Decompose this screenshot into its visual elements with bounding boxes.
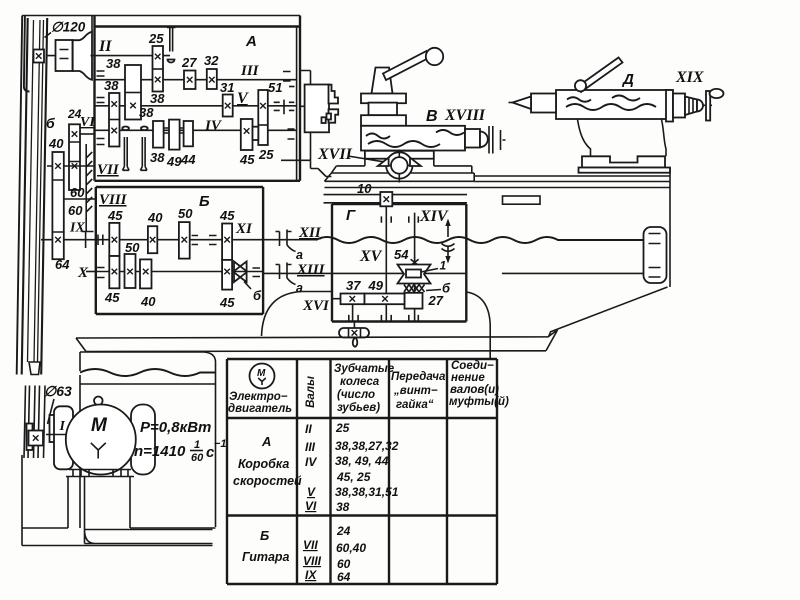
leadscrew end bracket bbox=[644, 227, 667, 283]
tailstock end plates bbox=[666, 90, 673, 122]
bearing ticks XIV bbox=[409, 216, 419, 321]
overload clutch bowtie bbox=[234, 262, 247, 272]
spindle nose bracket bbox=[281, 71, 311, 161]
pedestal arc right bbox=[466, 292, 490, 358]
gear 49 box bbox=[365, 294, 405, 305]
svg-text:XIII: XIII bbox=[296, 262, 326, 278]
svg-text:44: 44 bbox=[180, 152, 196, 167]
gear pair 38-38 left bbox=[109, 93, 120, 147]
svg-text:зубьев): зубьев) bbox=[337, 402, 380, 414]
cabinet wavy break bbox=[80, 369, 216, 376]
svg-text:X: X bbox=[77, 265, 89, 281]
svg-text:XVII: XVII bbox=[317, 146, 353, 163]
svg-text:III: III bbox=[305, 440, 316, 454]
toolpost handle hub bbox=[372, 68, 393, 94]
svg-text:IX: IX bbox=[69, 221, 85, 236]
shaft XVI line bbox=[332, 298, 405, 300]
svg-text:IV: IV bbox=[305, 455, 317, 469]
svg-text:27: 27 bbox=[181, 55, 197, 70]
motor mount left bracket bbox=[54, 406, 73, 469]
star mark bbox=[411, 257, 419, 267]
svg-text:45, 25: 45, 25 bbox=[336, 470, 371, 484]
shaft V bbox=[95, 105, 297, 107]
svg-text:n=1410: n=1410 bbox=[134, 443, 186, 460]
svg-text:40: 40 bbox=[140, 294, 156, 309]
svg-text:VII: VII bbox=[97, 162, 120, 178]
gear 45 lower left bbox=[109, 256, 119, 288]
gearbox A frame bbox=[95, 16, 301, 181]
saddle steps bbox=[331, 159, 471, 173]
apron box G frame bbox=[332, 204, 466, 322]
svg-text:60: 60 bbox=[70, 185, 85, 200]
svg-text:IX: IX bbox=[305, 568, 317, 582]
svg-text:II: II bbox=[98, 38, 112, 55]
table header texts bbox=[228, 360, 509, 415]
apron handwheel bbox=[386, 152, 412, 178]
svg-text:∅63: ∅63 bbox=[44, 383, 72, 399]
rack right segment bbox=[503, 196, 541, 204]
shaft X line bbox=[96, 271, 263, 273]
compound upper block bbox=[361, 115, 406, 126]
bearing tick shaft IX bbox=[85, 232, 87, 248]
svg-text:38: 38 bbox=[336, 500, 350, 514]
shaft X stub bbox=[86, 271, 96, 273]
friction cup symbol bbox=[168, 60, 175, 63]
bearing ticks pinion shaft bbox=[381, 216, 391, 321]
gear 45 upper left bbox=[109, 223, 119, 256]
motor mount right bracket bbox=[131, 405, 155, 475]
svg-text:24: 24 bbox=[336, 524, 351, 538]
crank knob bbox=[710, 89, 724, 98]
svg-text:25: 25 bbox=[335, 421, 350, 435]
friction clutch on V right bbox=[274, 100, 295, 115]
cabinet inner lines bbox=[80, 375, 216, 528]
svg-text:45: 45 bbox=[104, 290, 120, 305]
svg-text:VII: VII bbox=[303, 538, 318, 552]
svg-text:колеса: колеса bbox=[340, 376, 380, 388]
detent pin bbox=[167, 28, 175, 52]
svg-text:(число: (число bbox=[337, 389, 375, 401]
leadscrew wavy line XII bbox=[316, 237, 644, 243]
gear 32 bbox=[207, 69, 217, 89]
svg-text:49: 49 bbox=[166, 154, 182, 169]
svg-text:VIII: VIII bbox=[99, 192, 128, 208]
pulley D63 bbox=[50, 415, 60, 442]
pedestal legs bbox=[68, 477, 216, 530]
svg-text:Коробка: Коробка bbox=[238, 457, 289, 471]
wall bearing dashes shaft V left bbox=[97, 98, 105, 103]
motor wye symbol bbox=[91, 443, 106, 459]
svg-text:50: 50 bbox=[178, 206, 193, 221]
lathe bed lines bbox=[325, 176, 671, 188]
dashes right of bowtie bbox=[253, 268, 261, 277]
svg-text:64: 64 bbox=[337, 570, 351, 584]
svg-text:60: 60 bbox=[337, 557, 351, 571]
wall bearing dashes shaft IV right bbox=[288, 129, 295, 139]
chip tray bbox=[76, 330, 558, 352]
gear 45 right upper bbox=[222, 224, 232, 260]
table frame bbox=[227, 359, 497, 584]
big sliding block 38 bbox=[125, 65, 141, 120]
fork bearing ovals on IV bbox=[122, 127, 129, 131]
svg-text:Соеди−: Соеди− bbox=[451, 360, 494, 372]
worm zigzag bbox=[404, 285, 425, 293]
svg-text:45: 45 bbox=[219, 208, 235, 223]
svg-text:б: б bbox=[442, 281, 451, 296]
svg-text:М: М bbox=[257, 368, 266, 379]
svg-text:Гитара: Гитара bbox=[242, 550, 290, 564]
svg-text:37: 37 bbox=[346, 278, 361, 293]
leader to pulley bbox=[45, 33, 52, 38]
motor base bbox=[66, 470, 134, 477]
svg-text:Б: Б bbox=[260, 528, 269, 543]
apron handle capsule bbox=[339, 328, 369, 338]
gear 25-38 block on shaft II bbox=[153, 46, 164, 92]
svg-text:51: 51 bbox=[268, 80, 282, 95]
shaft VI stub bbox=[80, 133, 95, 135]
svg-text:XVIII: XVIII bbox=[444, 107, 486, 124]
tailstock handle pivot bbox=[575, 80, 586, 91]
svg-text:10: 10 bbox=[357, 181, 372, 196]
base skirt diagonal bbox=[549, 287, 668, 337]
svg-text:38,38,27,32: 38,38,27,32 bbox=[335, 439, 399, 453]
pedestal arc left bbox=[262, 292, 333, 337]
svg-text:Б: Б bbox=[199, 193, 210, 210]
crank bar bbox=[706, 91, 710, 121]
svg-text:А: А bbox=[261, 434, 271, 449]
gear 50 lower bbox=[125, 254, 136, 288]
svg-text:38: 38 bbox=[104, 78, 119, 93]
gear 27 box bbox=[405, 293, 423, 309]
toolpost plate bbox=[361, 94, 406, 104]
headstock base steps bbox=[311, 160, 332, 176]
cabinet under headstock bbox=[80, 352, 216, 527]
guitar block 24 on VI bbox=[69, 124, 80, 190]
svg-text:Г: Г bbox=[346, 207, 356, 224]
svg-text:IV: IV bbox=[204, 118, 223, 134]
wall bearing dash shaft V right bbox=[289, 86, 295, 88]
svg-text:38: 38 bbox=[150, 91, 165, 106]
svg-text:38,38,31,51: 38,38,31,51 bbox=[335, 485, 399, 499]
ticks left gear stub bbox=[349, 304, 358, 321]
svg-text:двигатель: двигатель bbox=[228, 403, 292, 415]
svg-text:P=0,8кВт: P=0,8кВт bbox=[140, 419, 211, 436]
svg-text:54: 54 bbox=[394, 247, 409, 262]
pulley D120 body bbox=[56, 40, 73, 71]
tailstock handle lever bbox=[577, 58, 623, 93]
svg-text:49: 49 bbox=[368, 278, 384, 293]
svg-text:Д: Д bbox=[621, 71, 634, 88]
gear 31 bbox=[223, 95, 233, 117]
leader to cross slide wheel bbox=[348, 156, 388, 163]
gearbox B frame bbox=[96, 187, 263, 314]
shaft II bbox=[47, 55, 171, 57]
svg-text:В: В bbox=[426, 108, 438, 125]
tailstock body bbox=[556, 90, 671, 119]
feed rod line XIII bbox=[332, 272, 644, 274]
chuck jaws bbox=[329, 85, 339, 104]
svg-text:−1: −1 bbox=[214, 438, 227, 450]
shaft IX/XI line bbox=[96, 239, 263, 241]
handwheel shaft bbox=[703, 104, 712, 106]
feed screw nose bbox=[465, 129, 480, 148]
svg-text:60: 60 bbox=[68, 203, 83, 218]
carriage band bbox=[325, 173, 475, 181]
web between 45 and 25 bbox=[253, 127, 259, 140]
svg-text:Зубчатые: Зубчатые bbox=[334, 363, 395, 375]
gear 50 upper bbox=[179, 222, 190, 259]
svg-text:45: 45 bbox=[219, 295, 235, 310]
svg-text:„винт−: „винт− bbox=[393, 385, 438, 397]
motor circle bbox=[66, 405, 136, 475]
gear 51-25 tall block bbox=[258, 90, 268, 145]
shaft III bbox=[95, 79, 297, 81]
headstock chuck bbox=[305, 85, 329, 133]
svg-text:а: а bbox=[296, 281, 303, 295]
svg-text:27: 27 bbox=[428, 293, 444, 308]
svg-text:б: б bbox=[46, 115, 55, 131]
tailstock quill bbox=[531, 94, 556, 113]
guitar gear 40-64 column bbox=[52, 152, 63, 259]
svg-text:А: А bbox=[245, 33, 257, 50]
cross slide body bbox=[361, 126, 465, 151]
shaft VII line bbox=[47, 165, 95, 167]
svg-text:валов(и): валов(и) bbox=[450, 384, 499, 396]
svg-text:гайка“: гайка“ bbox=[396, 399, 434, 411]
up-down arrow bbox=[447, 224, 449, 259]
svg-text:64: 64 bbox=[55, 257, 70, 272]
svg-text:М: М bbox=[91, 415, 108, 436]
tailstock base plate bbox=[582, 156, 665, 167]
wheel wing right bbox=[410, 158, 421, 166]
shaft XIV vertical bbox=[414, 213, 416, 322]
bracket plate bbox=[489, 126, 506, 154]
countershaft bearing bbox=[27, 424, 33, 451]
svg-text:Валы: Валы bbox=[305, 376, 317, 408]
svg-text:XIX: XIX bbox=[675, 69, 704, 86]
svg-text:VI: VI bbox=[305, 499, 317, 513]
guitar bracket hatched bbox=[82, 144, 94, 232]
svg-text:24: 24 bbox=[67, 107, 82, 121]
fork rod 2 bbox=[140, 137, 147, 170]
svg-text:60: 60 bbox=[191, 452, 204, 464]
pinion vertical shaft bbox=[385, 206, 387, 321]
shaft IX line from belt bbox=[41, 239, 96, 241]
svg-text:I: I bbox=[59, 419, 66, 434]
svg-text:25: 25 bbox=[258, 147, 274, 162]
handle knob teardrop bbox=[353, 338, 358, 347]
svg-text:25: 25 bbox=[148, 31, 164, 46]
svg-text:скоростей: скоростей bbox=[233, 474, 302, 488]
motor terminal box bbox=[94, 397, 103, 406]
svg-text:1: 1 bbox=[440, 259, 447, 273]
plinth bbox=[85, 530, 213, 544]
svg-text:∅120: ∅120 bbox=[51, 20, 86, 35]
shaft XIII line to apron bbox=[263, 272, 332, 274]
svg-text:45: 45 bbox=[107, 208, 123, 223]
svg-text:III: III bbox=[240, 63, 260, 79]
jaw clutch a on XIII bbox=[276, 263, 292, 280]
svg-text:V: V bbox=[307, 485, 316, 499]
gear 27 bbox=[184, 71, 196, 90]
jaw clutch a on XII bbox=[276, 230, 292, 247]
tailstock column bbox=[578, 120, 667, 157]
tailstock center cone bbox=[513, 97, 532, 110]
svg-text:40: 40 bbox=[147, 210, 163, 225]
svg-text:а: а bbox=[296, 248, 303, 262]
svg-text:60,40: 60,40 bbox=[336, 541, 366, 555]
svg-text:II: II bbox=[305, 422, 312, 436]
svg-text:XI: XI bbox=[235, 221, 253, 237]
motor shaft I bbox=[46, 434, 66, 436]
svg-text:V: V bbox=[237, 90, 249, 107]
shaft IV bbox=[95, 129, 297, 131]
svg-text:Электро−: Электро− bbox=[229, 391, 288, 403]
gear 37 box bbox=[341, 294, 365, 305]
toolpost lever bbox=[383, 51, 430, 80]
dog clutch dashes on XI bbox=[192, 236, 217, 245]
pulley bell flange bbox=[73, 32, 92, 80]
rack lines bbox=[324, 195, 468, 203]
worm nut housing bbox=[398, 265, 431, 284]
svg-text:нение: нение bbox=[451, 372, 485, 384]
svg-text:1: 1 bbox=[194, 439, 200, 451]
cabinet outer left wall bbox=[22, 455, 213, 546]
tailstock waves bbox=[567, 97, 591, 102]
svg-text:муфты(й): муфты(й) bbox=[449, 396, 509, 408]
belt gear mark lower bbox=[29, 431, 44, 446]
shaft XII line to apron bbox=[263, 239, 316, 241]
wall bearing dashes shaft III right bbox=[283, 72, 291, 82]
gear cluster 38-49-44 on IV bbox=[153, 121, 164, 148]
wheel wing left bbox=[378, 158, 389, 166]
quill screw cone bbox=[685, 97, 697, 116]
belt drive column upper (flat belt to pulley D120) bbox=[17, 16, 48, 375]
svg-text:XV: XV bbox=[359, 248, 383, 265]
table motor symbol bbox=[250, 364, 275, 389]
svg-text:45: 45 bbox=[239, 152, 255, 167]
wall bearing dashes shaft III left bbox=[97, 71, 105, 76]
dashes on X left bbox=[97, 268, 104, 278]
svg-text:38: 38 bbox=[139, 105, 154, 120]
gear 45 on IV bbox=[241, 119, 253, 150]
gear 45 right lower bbox=[222, 260, 232, 290]
lever ball bbox=[426, 48, 443, 65]
svg-text:50: 50 bbox=[125, 240, 140, 255]
bed right edge bbox=[669, 168, 671, 288]
svg-text:32: 32 bbox=[204, 53, 219, 68]
gear 40 upper bbox=[148, 226, 157, 253]
shaft VIII stub bbox=[64, 198, 96, 200]
svg-text:38: 38 bbox=[106, 56, 121, 71]
svg-text:38: 38 bbox=[150, 150, 165, 165]
wall bearing ticks shaft IX bbox=[98, 235, 103, 246]
saddle plate bbox=[365, 151, 434, 159]
svg-text:31: 31 bbox=[220, 80, 234, 95]
svg-text:б: б bbox=[253, 288, 262, 303]
rack pinion z10 bbox=[380, 192, 392, 206]
belt drive column lower bbox=[24, 386, 45, 459]
svg-text:VIII: VIII bbox=[303, 554, 322, 568]
svg-text:38, 49, 44: 38, 49, 44 bbox=[335, 454, 389, 468]
fork rod 1 bbox=[123, 137, 130, 170]
svg-text:VI: VI bbox=[80, 115, 95, 130]
svg-text:XVI: XVI bbox=[302, 298, 330, 314]
slide waves bbox=[366, 134, 390, 139]
svg-text:XIV: XIV bbox=[419, 208, 449, 225]
svg-text:Передача: Передача bbox=[391, 371, 446, 383]
gearbox A outer top line bbox=[22, 16, 300, 32]
leader bbox=[48, 399, 55, 424]
svg-text:40: 40 bbox=[48, 136, 64, 151]
belt gear mark box bbox=[34, 50, 45, 63]
gear 40 lower bbox=[140, 259, 152, 288]
toolpost neck bbox=[369, 103, 398, 116]
wall bearing dashes shaft IV left bbox=[97, 139, 105, 145]
spindle line to chuck bbox=[300, 105, 313, 107]
